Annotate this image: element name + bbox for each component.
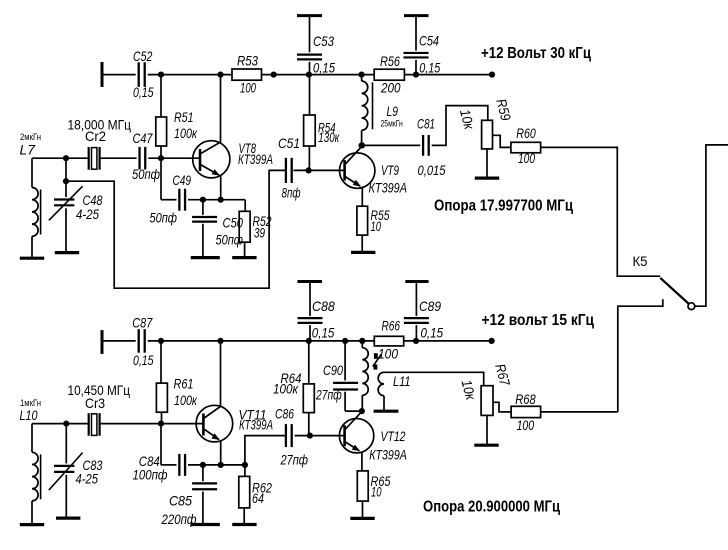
svg-text:100к: 100к [174, 392, 198, 408]
svg-text:39: 39 [254, 225, 265, 241]
svg-text:50пф: 50пф [150, 210, 178, 226]
svg-text:C86: C86 [275, 406, 294, 422]
svg-text:R68: R68 [515, 391, 536, 407]
svg-text:C52: C52 [133, 48, 152, 64]
svg-text:100: 100 [518, 150, 535, 166]
svg-text:Опора 20.900000 МГц: Опора 20.900000 МГц [423, 499, 560, 516]
svg-text:C87: C87 [132, 315, 153, 331]
svg-text:R53: R53 [237, 53, 258, 69]
svg-text:8пф: 8пф [282, 185, 301, 201]
svg-text:R56: R56 [380, 53, 400, 69]
svg-text:10: 10 [371, 484, 382, 500]
svg-text:10: 10 [371, 218, 382, 234]
svg-text:+12 вольт 15 кГц: +12 вольт 15 кГц [482, 312, 595, 329]
svg-text:100: 100 [240, 80, 256, 96]
svg-text:L10: L10 [20, 407, 38, 423]
svg-text:КТ399А: КТ399А [238, 151, 273, 167]
svg-text:VT9: VT9 [381, 162, 399, 178]
svg-text:КТ399А: КТ399А [369, 447, 407, 463]
svg-text:К5: К5 [633, 253, 648, 269]
svg-text:C47: C47 [133, 130, 154, 146]
svg-text:0,15: 0,15 [312, 325, 335, 341]
svg-text:200: 200 [380, 80, 401, 96]
svg-text:R66: R66 [382, 318, 401, 334]
svg-text:L11: L11 [393, 373, 411, 389]
svg-text:Cr3: Cr3 [85, 395, 105, 411]
svg-text:25мкГн: 25мкГн [381, 119, 403, 129]
svg-text:C85: C85 [169, 493, 192, 509]
svg-text:4-25: 4-25 [76, 206, 99, 222]
svg-text:0,15: 0,15 [133, 352, 154, 368]
svg-text:КТ399А: КТ399А [369, 180, 408, 196]
svg-text:R60: R60 [516, 125, 536, 141]
svg-text:50пф: 50пф [216, 232, 244, 248]
svg-text:0,15: 0,15 [313, 60, 335, 76]
svg-text:4-25: 4-25 [76, 471, 99, 487]
svg-text:27пф: 27пф [315, 387, 342, 403]
svg-text:Cr2: Cr2 [85, 128, 106, 144]
svg-text:100к: 100к [174, 125, 198, 141]
svg-text:50пф: 50пф [132, 166, 160, 182]
svg-text:+12 Вольт 30 кГц: +12 Вольт 30 кГц [481, 45, 591, 62]
svg-text:C53: C53 [313, 33, 334, 49]
svg-text:130к: 130к [318, 129, 340, 145]
svg-text:VT12: VT12 [381, 428, 406, 444]
svg-text:100: 100 [517, 417, 535, 433]
svg-text:Опора 17.997700 МГц: Опора 17.997700 МГц [434, 198, 573, 215]
svg-text:220пф: 220пф [161, 511, 197, 527]
svg-text:27пф: 27пф [280, 452, 309, 468]
svg-text:L7: L7 [20, 142, 37, 158]
svg-text:100пф: 100пф [133, 467, 168, 483]
svg-text:L9: L9 [387, 103, 399, 119]
svg-text:100к: 100к [273, 381, 299, 397]
svg-text:C49: C49 [173, 172, 192, 188]
svg-text:C90: C90 [323, 362, 343, 378]
svg-text:C54: C54 [419, 33, 439, 49]
svg-text:C81: C81 [417, 116, 435, 132]
svg-text:64: 64 [252, 490, 264, 506]
svg-text:0,15: 0,15 [421, 325, 444, 341]
svg-text:C89: C89 [419, 298, 441, 314]
svg-text:C50: C50 [223, 215, 244, 231]
svg-text:2мкГн: 2мкГн [20, 132, 41, 142]
svg-text:0,015: 0,015 [418, 162, 446, 178]
svg-text:R61: R61 [174, 376, 194, 392]
svg-text:0,15: 0,15 [133, 84, 154, 100]
svg-text:100: 100 [378, 346, 398, 362]
svg-text:0,15: 0,15 [419, 60, 440, 76]
svg-text:C51: C51 [278, 135, 300, 151]
svg-text:R51: R51 [174, 109, 194, 125]
svg-text:КТ399А: КТ399А [239, 417, 273, 433]
svg-text:C88: C88 [312, 298, 335, 314]
